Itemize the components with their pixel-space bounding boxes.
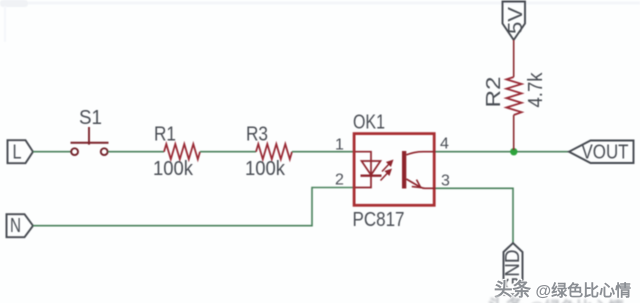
resistor R3 (245, 124, 292, 181)
phototransistor inside OK1 (402, 151, 436, 189)
svg-text:4.7k: 4.7k (525, 72, 547, 108)
svg-text:PC817: PC817 (353, 209, 405, 231)
net label VOUT (569, 141, 634, 164)
watermark 头条 @绿色比心情 (494, 276, 631, 302)
ground symbol (502, 243, 524, 295)
LED inside OK1 (355, 152, 381, 188)
svg-text:R2: R2 (483, 77, 505, 108)
svg-text:N: N (10, 215, 21, 237)
svg-text:VOUT: VOUT (582, 142, 629, 164)
svg-text:4: 4 (440, 136, 449, 153)
svg-text:OK1: OK1 (353, 112, 385, 134)
wire pin 3 to GND (436, 188, 514, 243)
resistor R2 (483, 72, 547, 115)
svg-text:R3: R3 (246, 124, 268, 146)
svg-text:R1: R1 (154, 124, 176, 146)
wire S1 to R1 (108, 151, 164, 153)
wire 5V to R2 (513, 40, 515, 77)
wire L to S1 (33, 151, 72, 153)
wire R2 to junction (513, 115, 515, 150)
svg-text:3: 3 (441, 173, 450, 190)
wire R1 to R3 (200, 151, 256, 153)
watermark second row (cut off at bottom edge) (487, 293, 624, 303)
svg-text:5V: 5V (505, 6, 527, 34)
svg-text:2: 2 (335, 172, 344, 189)
net label L (8, 140, 34, 163)
LED light arrows (381, 161, 393, 181)
faint top-left smudge (0, 0, 640, 42)
svg-text:100k: 100k (153, 158, 194, 180)
svg-text:1: 1 (335, 137, 344, 154)
svg-text:100k: 100k (245, 158, 286, 180)
optocoupler OK1 box (353, 112, 435, 232)
net label N (7, 214, 34, 237)
svg-text:S1: S1 (79, 107, 102, 129)
junction node (510, 148, 517, 155)
wire N to pin 2 (33, 188, 354, 226)
svg-text:L: L (13, 142, 22, 164)
resistor R1 (153, 124, 200, 181)
wire R3 to pin 1 (292, 151, 354, 153)
wire pin 4 to junction to VOUT (436, 151, 570, 153)
supply 5V (503, 2, 528, 41)
switch S1 (71, 127, 109, 155)
